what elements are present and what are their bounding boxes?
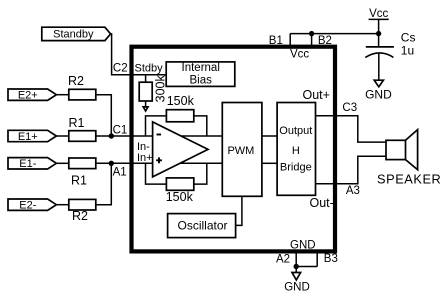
op-amp plus sign xyxy=(156,157,162,163)
svg-text:B3: B3 xyxy=(324,253,338,265)
svg-text:Standby: Standby xyxy=(53,29,94,41)
svg-text:150k: 150k xyxy=(167,94,195,108)
svg-text:C3: C3 xyxy=(342,102,357,114)
wire standby net C2 xyxy=(111,34,166,75)
wire pin B1 xyxy=(289,34,291,47)
wire Out+ to speaker xyxy=(316,116,387,142)
wire E2- flag to R2 xyxy=(56,204,68,206)
ground arrow Cs xyxy=(374,80,383,87)
wire feedback top left xyxy=(146,116,167,136)
wire E1+ flag to R1 xyxy=(56,135,68,137)
svg-text:1u: 1u xyxy=(401,43,414,57)
node Cs junction xyxy=(376,31,381,36)
resistor R1 top xyxy=(69,131,96,142)
svg-text:GND: GND xyxy=(284,281,310,293)
svg-text:B1: B1 xyxy=(269,35,283,47)
wire A2-B3 link xyxy=(296,266,317,268)
svg-text:Bridge: Bridge xyxy=(280,162,312,174)
IC outline box xyxy=(132,47,336,252)
resistor 150k top xyxy=(166,110,193,122)
op-amp minus sign xyxy=(157,134,162,136)
svg-text:B2: B2 xyxy=(318,35,332,47)
wire E2+ flag to R2 xyxy=(56,94,68,96)
wire feedback bottom right xyxy=(194,163,207,184)
svg-text:150k: 150k xyxy=(166,190,194,204)
svg-text:E1+: E1+ xyxy=(18,131,38,143)
svg-text:GND: GND xyxy=(290,239,316,251)
svg-text:E1-: E1- xyxy=(19,158,36,170)
wire Vcc supply bar xyxy=(369,18,389,20)
svg-text:Vcc: Vcc xyxy=(369,8,388,20)
svg-text:R2: R2 xyxy=(72,209,88,223)
svg-text:Output: Output xyxy=(279,125,312,137)
wire 300k bottom stub xyxy=(145,101,147,107)
speaker driver xyxy=(386,140,406,159)
svg-text:A1: A1 xyxy=(113,167,127,179)
svg-text:Bias: Bias xyxy=(190,74,213,86)
svg-text:Stdby: Stdby xyxy=(135,63,164,75)
input flag E2+ xyxy=(8,89,56,100)
capacitor Cs curved plate xyxy=(365,53,393,58)
svg-text:Oscillator: Oscillator xyxy=(177,218,227,232)
svg-text:C1: C1 xyxy=(113,125,128,137)
node B2 junction xyxy=(309,31,314,36)
input flag Standby xyxy=(42,27,111,40)
svg-text:A3: A3 xyxy=(346,185,360,197)
svg-text:Internal: Internal xyxy=(182,62,220,74)
resistor 150k bottom xyxy=(166,178,193,190)
resistor R2 top xyxy=(69,89,96,100)
svg-text:R1: R1 xyxy=(69,116,85,130)
svg-text:C2: C2 xyxy=(113,63,128,75)
wire feedback top right xyxy=(194,116,207,136)
capacitor Cs top plate xyxy=(366,46,394,48)
svg-text:R1: R1 xyxy=(71,174,87,188)
svg-text:Vcc: Vcc xyxy=(290,49,309,61)
svg-text:PWM: PWM xyxy=(227,145,254,157)
svg-text:GND: GND xyxy=(365,87,392,101)
PWM box xyxy=(222,103,262,197)
wire PWM to oscillator xyxy=(236,196,242,225)
wire feedback bottom left xyxy=(146,163,167,184)
svg-text:R2: R2 xyxy=(68,74,84,88)
node A1 xyxy=(109,161,114,166)
wire In- rail to PWM xyxy=(96,135,222,137)
wire Vcc drop to Cs xyxy=(378,19,380,47)
resistor 300k xyxy=(139,82,152,101)
internal bias box xyxy=(166,62,235,87)
resistor R1 bottom xyxy=(69,158,96,169)
wire Vcc rail xyxy=(290,33,378,35)
svg-text:Out-: Out- xyxy=(310,196,334,210)
wire A2 to ground xyxy=(295,267,297,273)
oscillator box xyxy=(168,214,236,238)
wire pin A2 xyxy=(295,251,297,267)
input flag E2- xyxy=(8,199,56,210)
svg-text:SPEAKER: SPEAKER xyxy=(377,171,441,186)
wire Out- to speaker xyxy=(316,156,387,184)
svg-text:Out+: Out+ xyxy=(303,88,330,102)
wire pin B3 xyxy=(316,251,318,267)
op-amp U1 xyxy=(153,122,208,177)
speaker horn xyxy=(406,130,418,170)
svg-text:A2: A2 xyxy=(276,253,290,265)
wire E2+ to node C1 xyxy=(96,95,112,136)
wire E1- flag to R1 xyxy=(56,162,68,164)
node A2 junction xyxy=(294,264,299,269)
node C1 xyxy=(109,133,114,138)
wire In+ rail to PWM xyxy=(96,162,222,164)
wire PWM to H-bridge upper xyxy=(262,135,277,137)
wire 300k top stub xyxy=(145,75,147,83)
wire Cs to ground xyxy=(378,53,380,80)
input flag E1- xyxy=(8,158,56,169)
wire E2- to node A1 xyxy=(96,163,112,204)
resistor R2 bottom xyxy=(69,199,96,210)
output H bridge box xyxy=(277,103,315,196)
input flag E1+ xyxy=(8,130,56,141)
svg-text:300k: 300k xyxy=(154,74,168,102)
ground arrow 300k xyxy=(143,107,148,111)
svg-text:E2-: E2- xyxy=(19,200,36,212)
wire PWM to H-bridge lower xyxy=(262,162,277,164)
svg-text:H: H xyxy=(292,145,300,157)
wire pin B2 xyxy=(311,34,313,47)
svg-text:E2+: E2+ xyxy=(18,90,38,102)
svg-text:In+: In+ xyxy=(137,152,153,164)
ground arrow A2 xyxy=(292,273,301,280)
